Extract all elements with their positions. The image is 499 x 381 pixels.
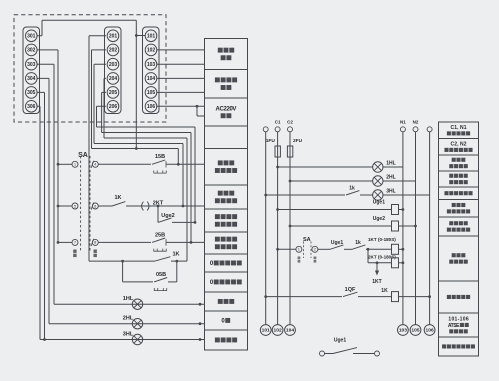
node J1 (101 tap) [135,34,138,37]
terminal 203 [107,58,119,70]
wire 1HL row [278,166,373,168]
wire 303 to 1HL row [37,64,205,304]
terminal 105 [145,87,157,99]
svg-text:204: 204 [109,76,118,82]
terminal 205 [107,87,119,99]
relay Uge2 coil [392,221,399,231]
svg-text:25B: 25B [155,232,165,238]
svg-text:303: 303 [27,62,36,68]
svg-text:C2: C2 [287,119,293,124]
terminal block XT1 [143,27,160,114]
terminal block XT3 [23,27,40,114]
svg-text:103: 103 [399,328,407,334]
terminal 102 [145,44,157,56]
lamp 2HL(r) [373,176,383,186]
relay 1K coil [392,292,399,302]
SA2 contact 2 [312,246,318,252]
wire 3HL row left [266,194,345,196]
svg-text:105: 105 [147,90,156,96]
wire Uge2 to N2 [399,225,416,227]
wire 301 to 101 over-top [37,20,136,36]
SA linkage (dashed) [80,156,82,251]
svg-text:102: 102 [274,328,282,334]
wire 1QF to 1K coil [358,296,392,298]
wire riser 136.3 down [135,36,137,149]
svg-text:6: 6 [94,204,96,208]
svg-text:1k: 1k [355,240,361,246]
timer 2KT coil [392,258,399,268]
wire 05B bypass [123,261,177,282]
svg-text:1QF: 1QF [345,287,356,293]
wire Uge2 to box [172,221,195,223]
svg-text:105: 105 [411,328,419,334]
svg-text:2: 2 [314,248,316,252]
svg-text:C1, N1: C1, N1 [451,125,467,131]
wire 206 route [97,106,196,222]
svg-text:1: 1 [74,163,76,167]
node R3 [264,194,267,197]
lamp 1HL(r) [373,162,383,172]
lamp 1HL [132,299,142,309]
breaker 15B [152,160,165,164]
terminal 306 [26,101,38,113]
SA contact 1 [72,161,78,167]
terminal C1 [275,127,280,132]
node SA feed 1 [57,163,60,166]
wire 202 route [92,50,179,164]
svg-text:1HL: 1HL [123,296,134,302]
svg-text:102: 102 [147,48,156,54]
svg-text:AC220V: AC220V [216,106,237,112]
lamp 3HL(r) [373,190,383,200]
svg-text:Uge1: Uge1 [373,199,385,205]
svg-text:203: 203 [109,62,118,68]
svg-text:305: 305 [27,90,36,96]
wire 1HL to N1 [383,166,403,168]
terminal C2 [288,127,293,132]
wire 103 to label column [157,63,205,65]
bus N1 vertical [402,132,404,325]
terminal 301 [26,30,38,42]
terminal 103 [145,58,157,70]
terminal 101 [145,30,157,42]
breaker 1QF [343,292,357,296]
svg-text:N2: N2 [413,119,419,124]
label cell: 备用电源 有电指示 [449,174,453,178]
wire 2KT branch [368,249,392,262]
svg-text:5: 5 [74,204,76,208]
lamp 2HL [132,319,142,329]
node R9 [367,248,370,251]
label cell: 备用电源 手动投入 [215,237,220,242]
svg-text:304: 304 [27,76,36,82]
label cell: 线路保护指示 [444,191,448,195]
terminal L0 [263,127,268,132]
label column (right) frame [439,122,479,356]
wire SA row2 to 1K [98,205,112,207]
node J2 [135,147,138,150]
wire Uge1 row [278,209,392,211]
svg-text:Uge1: Uge1 [331,240,343,246]
node J4 [177,163,180,166]
SA position label (manual) [94,250,97,253]
node J13 [199,322,202,325]
svg-text:15B: 15B [155,154,165,160]
wire 2HL to N2 [383,180,416,182]
wire 1K row [89,260,155,262]
wire SA row3 stub [58,241,72,243]
wire to 1KT coil [366,248,392,250]
svg-text:3HL: 3HL [123,331,134,337]
SA contact 7 [72,239,78,245]
svg-text:205: 205 [109,90,118,96]
svg-text:1FU: 1FU [266,138,276,144]
label cell: 发电机启动信号 [442,344,446,348]
svg-text:1KT: 1KT [372,279,381,285]
svg-text:2HL: 2HL [123,316,134,322]
svg-text:C2, N2: C2, N2 [451,141,467,147]
label cell: 主电源 [218,299,223,304]
ATSE terminal 101 [260,325,271,336]
node Uge2 branch [157,205,160,208]
contact Uge1(gen) right terminal [375,351,380,356]
wire AC220V second feed [197,106,205,116]
node J7 [194,221,197,224]
breaker 25B [152,238,165,242]
label column (middle) frame [205,39,248,351]
wire 205 route [102,92,191,242]
node R5 [402,208,405,211]
label cell: 主线路保护 [447,295,451,299]
label cell: 主电源 自动投入 [218,191,223,196]
svg-text:301: 301 [27,34,36,40]
node J9 [43,338,46,341]
SA contact 8 [92,239,98,245]
svg-text:101-106: 101-106 [448,316,469,322]
contact 1K [112,202,125,206]
ATSE terminal 105 [410,325,421,336]
node J12 [199,303,202,306]
node R7 [414,225,417,228]
label cell: 主电源 有电指示 [452,158,456,162]
wire SA row2 stub [58,205,72,207]
node R12 [376,261,379,264]
svg-text:8: 8 [94,241,96,245]
svg-text:N1: N1 [400,119,406,124]
terminal 202 [107,44,119,56]
wire 2HL row [290,180,373,182]
label cell: 主电源 手动投入 [218,160,223,165]
SA contact 4 [92,161,98,167]
svg-text:3HL: 3HL [386,188,395,194]
svg-text:4: 4 [94,163,96,167]
label cell: 主电源 输入 [218,48,223,53]
node R1 [276,166,279,169]
node J10 [121,260,124,263]
wire 105 to label column [157,91,205,93]
wire 1KT to N1 [399,248,403,250]
label cell: 备用电源 [215,337,220,342]
SA2 linkage (dashed) [303,242,305,259]
svg-text:1K: 1K [172,251,179,257]
svg-text:101: 101 [147,34,156,40]
bus N3 vertical [429,132,431,325]
terminal N3 [427,127,432,132]
svg-text:1K: 1K [114,195,121,201]
svg-text:Uge2: Uge2 [373,216,385,222]
svg-text:106: 106 [147,104,156,110]
wire SA row3 to 25B [98,241,151,243]
svg-text:7: 7 [74,241,76,245]
wire Uge2 drop [157,206,159,222]
ATSE terminal 102 [272,325,283,336]
svg-text:2KT (0-180S): 2KT (0-180S) [368,255,396,260]
contact Uge1(no) [330,245,343,249]
SA contact 5 [72,203,78,209]
svg-text:302: 302 [27,48,36,54]
fuse 1FU [275,146,280,157]
terminal 305 [26,87,38,99]
node R10 [402,248,405,251]
wire 203 route [94,64,183,206]
node R14 [428,295,431,298]
svg-text:Uge1: Uge1 [334,338,346,344]
ATSE terminal 104 [285,325,296,336]
wire 15B to box [166,163,205,165]
node R2 [289,180,292,183]
node R6 [289,225,292,228]
svg-text:1KT (0-180S): 1KT (0-180S) [368,237,396,242]
node J14 [199,338,202,341]
contact 1k2 [352,245,365,249]
ATSE terminal 106 [424,325,435,336]
terminal N1 [400,127,405,132]
node SA feed 3 [57,241,60,244]
wire 101 stub [136,35,145,37]
wire 102 to label column [157,49,205,51]
label cell: 备用电源 自动投入 [215,214,220,219]
SA2 position label (manual) [314,257,317,260]
wire 302 SA feeder [37,50,58,243]
svg-text:Uge2: Uge2 [161,213,174,219]
label cell: 主电源 优先投入 [452,253,456,257]
wire 3HL to N3 [383,194,430,196]
contact Uge2 [158,218,171,222]
terminal 204 [107,73,119,85]
svg-text:SA: SA [303,237,311,243]
svg-text:202: 202 [109,48,118,54]
bus L0 vertical [265,132,267,325]
svg-text:2HL: 2HL [386,174,395,180]
wire SA2 to Uge1 contact [318,248,330,250]
wire 304 to 2HL row [37,78,205,323]
SA contact 6 [92,203,98,209]
svg-text:206: 206 [109,104,118,110]
svg-text:1: 1 [298,248,300,252]
terminal N2 [413,127,418,132]
terminal 206 [107,101,119,113]
terminal 201 [107,30,119,42]
svg-text:SA: SA [78,152,88,159]
SA position label (auto) [73,250,76,253]
wire SA row1 stub [58,163,72,165]
contact 1k [346,191,359,195]
terminal 106 [145,101,157,113]
wire 3HL mid [360,194,373,196]
wire 2KT to N1 [399,262,403,264]
wire SA row1 to 15B [98,163,151,165]
node R11 [402,261,405,264]
svg-text:1HL: 1HL [386,160,395,166]
terminal block XT2 [105,27,122,114]
lamp 3HL [132,334,142,344]
bus C1 vertical [277,132,279,325]
breaker 05B [154,278,167,282]
node J11 [175,260,178,263]
wire 106 to label column [157,105,205,107]
node SA feed 2 [57,205,60,208]
wire 204 route [104,78,187,261]
node R4 [276,208,279,211]
terminal 304 [26,73,38,85]
wire 05B right [168,281,177,283]
wire 1QF row left [266,296,342,298]
wire 1K coil to N3 [399,296,430,298]
wire SA2 stub [278,248,296,250]
node R8 [276,248,279,251]
wire 306 to 3HL row [37,106,205,339]
svg-text:201: 201 [109,34,118,40]
wire 25B to box [166,241,205,243]
wire Uge1 to N1 [399,209,403,211]
label cell: 主电源 电压继电器 [452,203,456,207]
contact Uge1(gen) left terminal [320,351,325,356]
node R13 [264,295,267,298]
node J3 (AC220V tap) [196,105,199,108]
svg-text:104: 104 [286,328,294,334]
svg-text:1k: 1k [349,186,355,192]
node J6 [190,241,193,244]
bus N2 vertical [415,132,417,325]
timed contact 1KT [376,263,378,271]
svg-text:05B: 05B [156,272,166,278]
svg-text:101: 101 [262,328,270,334]
wire to 1k2 [344,248,352,250]
node J5 [182,205,185,208]
svg-text:1K: 1K [381,288,388,294]
wire 305 drop [37,92,45,339]
svg-text:306: 306 [27,104,36,110]
terminal 303 [26,58,38,70]
svg-text:106: 106 [426,328,434,334]
SA2 position label (auto) [298,257,301,260]
SA2 contact 1 [296,246,302,252]
label cell: 备用电源 电压继电器 [449,221,453,225]
contact Uge1(gen) [324,353,333,355]
bus C2 vertical [289,132,291,325]
wire 201 feeder to 1K row [89,36,106,261]
wire 104 to label column [157,77,205,79]
wire 1K to 2KT [126,205,205,207]
svg-text:2FU: 2FU [293,138,303,144]
label cell: 备用电源 输入 [215,77,220,82]
terminal 302 [26,44,38,56]
relay Uge1 coil [392,205,399,215]
svg-text:ATSE: ATSE [448,323,460,329]
timed contact 2KT [142,202,144,211]
terminal 104 [145,73,157,85]
fuse 2FU [287,146,292,157]
ATSE terminal 103 [398,325,409,336]
ATSE terminal enclosure (dashed) [14,15,166,122]
svg-text:C1: C1 [275,119,281,124]
wire Uge2 row [290,225,392,227]
svg-text:103: 103 [147,62,156,68]
contact 1K(2) [155,257,170,261]
wire 1K row to riser [171,260,187,262]
svg-text:104: 104 [147,76,156,82]
timer 1KT coil [392,244,399,254]
